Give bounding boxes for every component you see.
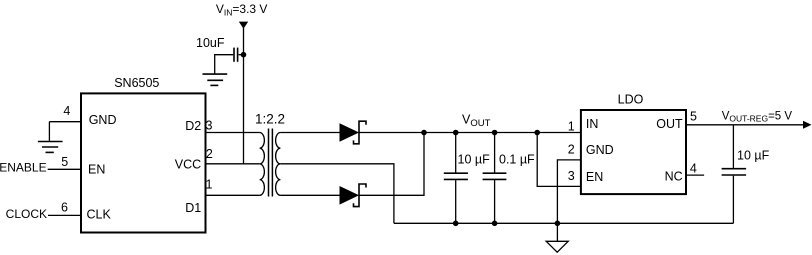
svg-text:2: 2	[206, 147, 213, 161]
svg-text:LDO: LDO	[618, 92, 644, 106]
svg-text:VCC: VCC	[175, 157, 201, 171]
svg-text:1: 1	[568, 120, 575, 134]
svg-text:EN: EN	[88, 163, 105, 177]
svg-text:10 µF: 10 µF	[737, 148, 770, 162]
svg-text:OUT: OUT	[656, 117, 683, 131]
svg-text:5: 5	[690, 109, 697, 123]
svg-text:5: 5	[61, 155, 68, 169]
svg-text:10 µF: 10 µF	[458, 153, 491, 167]
svg-text:CLK: CLK	[87, 207, 112, 221]
svg-text:1:2.2: 1:2.2	[255, 111, 285, 126]
svg-text:1: 1	[206, 178, 213, 192]
svg-text:VOUT-REG=5 V: VOUT-REG=5 V	[722, 111, 793, 124]
svg-text:10uF: 10uF	[196, 36, 225, 50]
svg-text:SN6505: SN6505	[114, 76, 159, 90]
svg-text:6: 6	[61, 200, 68, 214]
svg-text:CLOCK: CLOCK	[6, 207, 47, 221]
svg-text:VOUT: VOUT	[462, 113, 491, 130]
svg-text:D1: D1	[185, 201, 201, 215]
svg-text:4: 4	[63, 104, 70, 118]
svg-text:ENABLE: ENABLE	[0, 160, 47, 174]
svg-text:0.1 µF: 0.1 µF	[499, 153, 535, 167]
svg-text:4: 4	[690, 161, 697, 175]
svg-text:3: 3	[206, 119, 213, 133]
svg-text:EN: EN	[586, 170, 603, 184]
svg-text:NC: NC	[665, 170, 683, 184]
svg-text:VIN=3.3 V: VIN=3.3 V	[216, 2, 268, 18]
svg-text:GND: GND	[586, 143, 614, 157]
svg-text:2: 2	[568, 143, 575, 157]
svg-text:3: 3	[568, 169, 575, 183]
svg-text:D2: D2	[185, 119, 201, 133]
svg-text:IN: IN	[586, 117, 599, 131]
svg-text:GND: GND	[89, 113, 117, 127]
